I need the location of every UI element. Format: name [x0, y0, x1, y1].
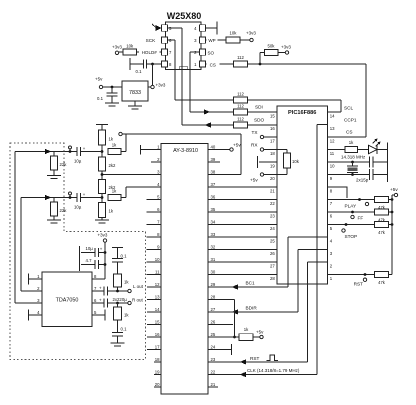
- svg-text:26: 26: [211, 320, 216, 325]
- svg-text:40: 40: [211, 145, 216, 150]
- svg-text:10k: 10k: [126, 44, 134, 49]
- svg-text:7833: 7833: [129, 90, 141, 96]
- svg-text:31: 31: [211, 257, 216, 262]
- svg-text:+3v3: +3v3: [246, 31, 256, 36]
- svg-text:SCL: SCL: [344, 106, 354, 111]
- svg-text:WP: WP: [208, 38, 215, 43]
- svg-text:SO: SO: [208, 51, 215, 56]
- svg-text:112: 112: [237, 91, 244, 96]
- svg-text:2x15p: 2x15p: [356, 178, 369, 183]
- svg-text:34: 34: [211, 220, 216, 225]
- svg-text:22k: 22k: [60, 162, 68, 167]
- svg-text:+3v3: +3v3: [112, 45, 122, 50]
- svg-text:27: 27: [270, 263, 275, 268]
- svg-text:17: 17: [155, 345, 160, 350]
- svg-text:CS: CS: [346, 129, 353, 134]
- svg-text:14: 14: [155, 307, 160, 312]
- svg-text:18: 18: [155, 357, 160, 362]
- svg-text:SDO: SDO: [254, 118, 265, 123]
- svg-text:35: 35: [211, 207, 216, 212]
- svg-text:21: 21: [211, 382, 216, 387]
- svg-text:15: 15: [270, 113, 275, 118]
- svg-text:13: 13: [155, 295, 160, 300]
- svg-text:+3v3: +3v3: [98, 233, 108, 238]
- svg-text:2k2: 2k2: [109, 163, 117, 168]
- svg-text:+5v: +5v: [256, 329, 264, 334]
- svg-text:STOP: STOP: [345, 234, 358, 239]
- svg-text:14: 14: [330, 113, 335, 118]
- svg-text:HOLD#: HOLD#: [142, 50, 158, 55]
- svg-text:BDIR: BDIR: [246, 306, 258, 311]
- svg-text:CLK (14.318/8=1.79 MHz): CLK (14.318/8=1.79 MHz): [247, 368, 300, 373]
- svg-text:112: 112: [237, 116, 244, 121]
- svg-text:TDA7050: TDA7050: [56, 298, 79, 304]
- svg-text:W25X80: W25X80: [167, 11, 202, 21]
- svg-text:17: 17: [270, 138, 275, 143]
- svg-text:+5v: +5v: [233, 142, 241, 147]
- svg-text:19: 19: [155, 370, 160, 375]
- svg-text:23: 23: [270, 213, 275, 218]
- svg-text:+5v: +5v: [95, 77, 103, 82]
- svg-text:30: 30: [211, 270, 216, 275]
- svg-text:27: 27: [211, 307, 216, 312]
- svg-text:11: 11: [330, 151, 335, 156]
- svg-text:14.318 MHz: 14.318 MHz: [341, 154, 366, 159]
- svg-text:112: 112: [237, 55, 244, 60]
- svg-text:11: 11: [155, 270, 160, 275]
- svg-text:PLAY: PLAY: [345, 203, 358, 208]
- svg-text:R out: R out: [132, 297, 144, 302]
- svg-text:2x220µ: 2x220µ: [113, 297, 128, 302]
- svg-text:24: 24: [270, 226, 275, 231]
- svg-text:0.1: 0.1: [97, 96, 104, 101]
- svg-text:20: 20: [155, 382, 160, 387]
- svg-text:36: 36: [211, 195, 216, 200]
- svg-text:10µ: 10µ: [74, 205, 82, 210]
- svg-text:37: 37: [211, 182, 216, 187]
- svg-text:0.1: 0.1: [121, 327, 128, 332]
- svg-text:33: 33: [211, 232, 216, 237]
- svg-text:22: 22: [211, 370, 216, 375]
- svg-text:16: 16: [270, 126, 275, 131]
- svg-text:SCK: SCK: [146, 38, 157, 43]
- svg-text:L out: L out: [133, 284, 144, 289]
- svg-text:10k: 10k: [230, 30, 238, 35]
- svg-text:47k: 47k: [378, 230, 386, 235]
- svg-text:10µ: 10µ: [74, 159, 82, 164]
- svg-text:+5v: +5v: [390, 187, 398, 192]
- svg-text:+3v3: +3v3: [281, 45, 291, 50]
- svg-text:+: +: [99, 298, 102, 303]
- svg-text:RST: RST: [354, 282, 364, 287]
- svg-text:SDI: SDI: [255, 105, 263, 110]
- svg-text:38: 38: [211, 170, 216, 175]
- svg-text:12: 12: [155, 282, 160, 287]
- svg-text:15: 15: [155, 320, 160, 325]
- svg-text:RX: RX: [251, 143, 258, 148]
- svg-text:39: 39: [211, 157, 216, 162]
- svg-text:+: +: [100, 247, 103, 252]
- svg-text:13: 13: [330, 126, 335, 131]
- svg-text:0.1: 0.1: [121, 254, 128, 259]
- svg-text:10: 10: [155, 257, 160, 262]
- svg-text:32: 32: [211, 245, 216, 250]
- svg-text:10µ: 10µ: [86, 246, 94, 251]
- svg-text:FF: FF: [358, 215, 364, 220]
- svg-text:25: 25: [211, 332, 216, 337]
- svg-text:28: 28: [270, 276, 275, 281]
- svg-text:18: 18: [270, 151, 275, 156]
- svg-text:16: 16: [155, 332, 160, 337]
- svg-text:+5v: +5v: [250, 178, 258, 183]
- svg-text:29: 29: [211, 282, 216, 287]
- svg-text:20: 20: [270, 176, 275, 181]
- svg-text:CS: CS: [210, 62, 216, 67]
- svg-text:0.1: 0.1: [136, 69, 143, 74]
- svg-text:24: 24: [211, 345, 216, 350]
- svg-text:12: 12: [330, 138, 335, 143]
- svg-text:22: 22: [270, 201, 275, 206]
- svg-text:28: 28: [211, 295, 216, 300]
- svg-text:10: 10: [330, 163, 335, 168]
- svg-text:AY-3-8910: AY-3-8910: [173, 148, 198, 154]
- svg-text:25: 25: [270, 238, 275, 243]
- svg-text:+: +: [99, 286, 102, 291]
- svg-text:50k: 50k: [268, 44, 276, 49]
- svg-text:112: 112: [237, 103, 244, 108]
- svg-text:TX: TX: [252, 130, 259, 135]
- svg-text:23: 23: [211, 357, 216, 362]
- svg-text:19: 19: [270, 163, 275, 168]
- svg-text:21: 21: [270, 188, 275, 193]
- svg-text:RST: RST: [250, 356, 260, 361]
- svg-text:47k: 47k: [378, 280, 386, 285]
- svg-text:PIC16F886: PIC16F886: [288, 110, 316, 116]
- svg-text:BC1: BC1: [246, 281, 256, 286]
- svg-text:+3v3: +3v3: [156, 83, 166, 88]
- svg-text:CCP1: CCP1: [344, 117, 357, 122]
- svg-text:26: 26: [270, 251, 275, 256]
- svg-text:22k: 22k: [60, 208, 68, 213]
- svg-text:10k: 10k: [292, 159, 300, 164]
- svg-text:4.7: 4.7: [86, 258, 93, 263]
